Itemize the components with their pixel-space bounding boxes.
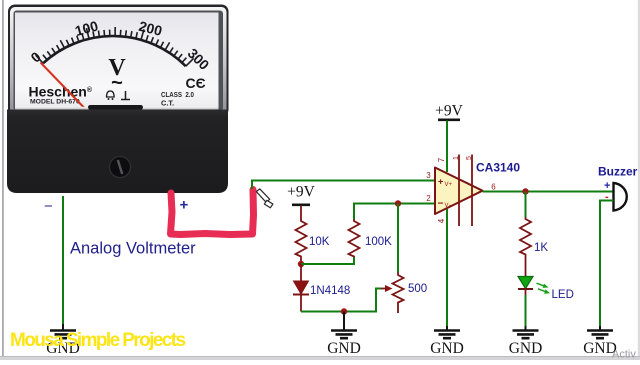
buzzer (598, 165, 638, 211)
svg-text:100K: 100K (365, 236, 392, 248)
wire: op-amp pin4 to GND (446, 226, 448, 326)
svg-text:−: − (44, 198, 53, 215)
junction: 10K/100K/diode node (298, 261, 304, 267)
wire: voltmeter minus to GND (62, 196, 64, 324)
svg-text:−: − (438, 199, 444, 210)
wire: node to 1K (525, 192, 527, 218)
svg-text:+: + (180, 197, 189, 214)
ground GND1 (46, 324, 80, 357)
voltmeter bell and ground symbols (107, 91, 131, 100)
LED (518, 260, 574, 301)
ground GND4 (509, 326, 543, 357)
junction: ground node (341, 308, 347, 314)
svg-text:V+: V+ (445, 182, 453, 188)
analog voltmeter photo (7, 5, 229, 194)
voltmeter dial scale (27, 18, 212, 74)
mouse pen cursor (256, 189, 273, 208)
svg-text:3: 3 (426, 171, 431, 180)
voltmeter lower body (7, 105, 228, 193)
svg-text:~: ~ (111, 72, 123, 94)
ground GND5 (583, 326, 617, 357)
junction: pin2/pot node (395, 200, 401, 206)
svg-text:CЄ: CЄ (186, 75, 206, 91)
potentiometer 500 (381, 272, 427, 313)
op-amp CA3140 (426, 155, 520, 227)
svg-text:V−: V− (445, 203, 453, 209)
resistor 1K (520, 217, 548, 260)
svg-text:6: 6 (491, 183, 496, 192)
power +9V (left) (287, 184, 315, 220)
svg-text:Activ: Activ (612, 349, 636, 361)
wire: node to 100K bottom (301, 257, 354, 264)
voltmeter case frame (8, 5, 229, 117)
svg-text:1K: 1K (534, 242, 548, 254)
svg-text:GND: GND (327, 340, 361, 357)
ground GND3 (430, 326, 464, 357)
svg-text:1N4148: 1N4148 (310, 285, 350, 297)
power +9V (top) (435, 103, 463, 173)
svg-text:MODEL DH-670: MODEL DH-670 (30, 99, 80, 106)
svg-text:500: 500 (408, 283, 427, 295)
wire: probe to op-amp pin 3 (252, 181, 435, 190)
svg-text:C.T.: C.T. (161, 99, 174, 108)
diode 1N4148 (293, 264, 350, 312)
voltmeter screw (110, 157, 131, 178)
resistor 10K (296, 219, 330, 264)
ground GND2 (327, 312, 361, 358)
junction: output node (522, 188, 528, 194)
svg-text:+9V: +9V (435, 103, 463, 120)
svg-text:Mousa Simple Projects: Mousa Simple Projects (10, 330, 185, 351)
svg-text:10K: 10K (309, 236, 330, 248)
wire: op-amp output to buzzer (483, 191, 614, 193)
svg-text:4: 4 (437, 218, 446, 223)
wire: node down to potentiometer top (397, 204, 399, 273)
svg-text:7: 7 (437, 157, 446, 162)
wire: diode cathode run to wiper (301, 289, 381, 312)
hand-drawn red probe wire (171, 190, 254, 235)
wire: buzzer minus to GND (600, 201, 614, 327)
svg-text:Analog Voltmeter: Analog Voltmeter (70, 240, 196, 258)
voltmeter needle (41, 63, 96, 120)
svg-text:5: 5 (466, 156, 473, 160)
svg-text:CA3140: CA3140 (476, 161, 520, 175)
wire: 100K top to op-amp pin 2 (354, 204, 435, 220)
svg-text:GND: GND (509, 340, 543, 357)
voltmeter V unit marking (108, 55, 126, 94)
svg-text:1: 1 (453, 156, 460, 160)
resistor 100K (349, 219, 393, 257)
svg-text:LED: LED (552, 289, 574, 301)
svg-text:+: + (438, 177, 443, 187)
wire: LED to GND (525, 295, 527, 326)
svg-text:Heschen®: Heschen® (29, 84, 93, 100)
svg-text:2: 2 (426, 194, 431, 203)
svg-text:Buzzer: Buzzer (598, 165, 638, 179)
svg-text:+9V: +9V (287, 184, 315, 201)
svg-text:GND: GND (430, 340, 464, 357)
voltmeter class markings (161, 75, 206, 108)
voltmeter Heschen brand text (29, 84, 93, 106)
